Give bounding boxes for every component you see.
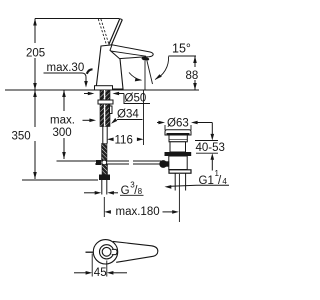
lever solid [109, 19, 123, 45]
base flange [95, 86, 113, 90]
svg-text:205: 205 [26, 48, 45, 60]
handle top view: slot detail [112, 249, 117, 254]
dimension 40-53 [195, 123, 218, 171]
G 3/8 tube [102, 180, 107, 195]
flexible hose upper hatched segment [102, 144, 108, 161]
svg-text:88: 88 [186, 70, 199, 82]
rod ball joint knob [159, 160, 169, 168]
linkage connector block [96, 160, 101, 165]
extension line top (lever height reference) [35, 18, 120, 20]
label G1 1/4 with leader [165, 169, 230, 189]
drain lower body [169, 156, 187, 170]
drain: diameter 63 dimension [157, 121, 212, 131]
svg-text:300: 300 [53, 127, 72, 139]
mounting deck line [5, 89, 199, 91]
dimension 45 [74, 254, 127, 277]
dimension max.300 vertical line with reference line [57, 90, 96, 161]
svg-text:max.: max. [50, 115, 75, 127]
handle top view: tail [113, 241, 158, 262]
pop-up linkage rod [95, 161, 161, 164]
G 3/8 connection nut [99, 175, 110, 181]
dimension 15 degrees: angle reference line [169, 55, 197, 57]
dimension 88 vertical line [193, 56, 197, 90]
handle left nub [86, 251, 94, 253]
tailpipe [175, 173, 185, 190]
svg-text:15°: 15° [172, 41, 191, 55]
pop-up pull rod knob [87, 69, 93, 74]
drain upper body [169, 135, 187, 142]
label max.30 with underline leader [44, 62, 88, 88]
faucet body [96, 45, 123, 89]
dimension 350 vertical line with reference line [22, 90, 98, 180]
svg-text:max.30: max.30 [47, 62, 85, 74]
svg-text:8: 8 [138, 187, 143, 196]
mounting nut [98, 100, 113, 104]
label G 3/8 [120, 181, 144, 197]
dimension arrows diameter 34 [83, 118, 143, 124]
linkage joint circle [102, 160, 107, 165]
supply tube below shank [103, 127, 107, 144]
svg-text:Ø34: Ø34 [117, 109, 139, 121]
drain lock nut [165, 152, 192, 156]
shank side stud [110, 106, 113, 114]
svg-text:45: 45 [94, 267, 107, 279]
drain centerline rod [178, 174, 180, 222]
svg-text:350: 350 [12, 131, 31, 143]
svg-text:Ø50: Ø50 [125, 93, 147, 105]
drain flange [165, 130, 191, 135]
svg-text:116: 116 [115, 135, 133, 147]
spout [110, 45, 153, 59]
dimension arrows G 3/8 [84, 191, 118, 195]
svg-text:40-53: 40-53 [196, 142, 225, 154]
dimension 116 [107, 90, 144, 145]
slanted stream line 15 deg [147, 61, 153, 84]
drain neck [170, 142, 186, 152]
plumb line from aerator [144, 61, 146, 90]
dimension max.180 [104, 210, 179, 214]
dimension 205 vertical line [33, 19, 37, 91]
arc for 15 degrees with arrowheads [129, 57, 169, 82]
aerator [141, 56, 149, 61]
flexible hose lower hatched segment [102, 165, 108, 175]
drain bottom band [169, 170, 191, 173]
threaded shank hatched [100, 90, 110, 127]
dimension arrows diameter 50 [84, 92, 150, 104]
faucet centerline extension below hose [103, 197, 105, 217]
svg-text:max.180: max.180 [116, 206, 160, 218]
svg-text:Ø63: Ø63 [167, 118, 189, 130]
handle top view: pivot circle [93, 240, 117, 264]
lever dashed alternate position [98, 19, 109, 44]
